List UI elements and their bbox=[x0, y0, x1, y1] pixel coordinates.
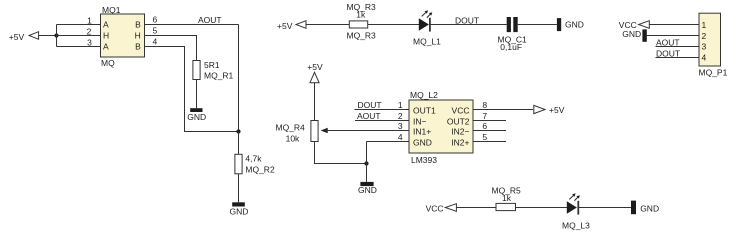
net label DOUT (P1) bbox=[656, 48, 680, 58]
wire R4 bottom to junction bbox=[315, 142, 367, 164]
svg-text:MQ_L2: MQ_L2 bbox=[410, 90, 438, 100]
svg-text:2: 2 bbox=[702, 31, 707, 41]
svg-text:VCC: VCC bbox=[426, 203, 444, 213]
value label MQ bbox=[101, 58, 115, 68]
ground under LM393 bbox=[358, 182, 377, 195]
LED MQ_L3 bbox=[567, 193, 580, 214]
wire +5V to R4 bbox=[314, 83, 316, 121]
power flag VCC (P1) bbox=[619, 20, 650, 30]
potentiometer MQ_R4 bbox=[311, 121, 328, 142]
wire LM393 pin 8 to +5V bbox=[473, 109, 533, 111]
svg-text:MQ_R3: MQ_R3 bbox=[347, 31, 377, 41]
pin number 7 (LM393) bbox=[482, 111, 487, 121]
resistor MQ_R3 bbox=[349, 21, 367, 28]
resistor MQ_R2 bbox=[235, 154, 242, 174]
svg-text:AOUT: AOUT bbox=[198, 15, 222, 25]
wire +5V to R3 bbox=[306, 24, 349, 26]
svg-text:7: 7 bbox=[482, 111, 487, 121]
value label 0,1uF bbox=[500, 42, 522, 52]
svg-text:H: H bbox=[103, 31, 109, 41]
svg-text:B: B bbox=[135, 42, 141, 52]
wire MQ1 pin 6 to AOUT vertical bbox=[145, 24, 239, 26]
svg-text:A: A bbox=[103, 42, 109, 52]
value label LM393 bbox=[411, 155, 437, 165]
svg-text:4: 4 bbox=[702, 53, 707, 63]
junction R4/GND bbox=[364, 161, 368, 165]
svg-text:+5V: +5V bbox=[549, 105, 565, 115]
svg-text:3: 3 bbox=[398, 121, 403, 131]
net label AOUT bbox=[198, 15, 222, 25]
gas sensor MQ1 body bbox=[101, 14, 145, 57]
svg-text:5: 5 bbox=[482, 132, 487, 142]
net label DOUT bbox=[455, 15, 479, 25]
svg-text:DOUT: DOUT bbox=[455, 15, 479, 25]
wire L3 to GND tap bbox=[578, 207, 631, 209]
svg-text:H: H bbox=[135, 31, 141, 41]
reference label MQ_R1 bbox=[204, 71, 234, 81]
svg-text:A: A bbox=[103, 20, 109, 30]
value label 10k bbox=[286, 133, 300, 143]
svg-text:GND: GND bbox=[640, 203, 659, 213]
power flag +5V left of MQ1 bbox=[9, 32, 39, 42]
wire R3 to LED L1 bbox=[368, 24, 419, 26]
comparator MQ_L2 body bbox=[409, 100, 473, 153]
reference label MQ_R2 bbox=[245, 164, 275, 174]
pin number 1 (LM393) bbox=[398, 100, 403, 110]
capacitor MQ_C1 bbox=[507, 17, 518, 32]
wire LM393 pin 6 stub bbox=[473, 130, 506, 132]
net label AOUT (LM393) bbox=[357, 111, 381, 121]
pin number 8 (LM393) bbox=[482, 100, 487, 110]
svg-text:+5V: +5V bbox=[277, 21, 293, 31]
wire vertical branch pins 1-3 bbox=[56, 25, 58, 47]
svg-text:AOUT: AOUT bbox=[357, 111, 381, 121]
wire L1 to C1 bbox=[430, 24, 507, 26]
pin number 2 (LM393) bbox=[398, 111, 403, 121]
svg-text:IN1+: IN1+ bbox=[413, 126, 431, 136]
name label MQ_R5 bbox=[492, 185, 522, 195]
power flag VCC (R5) bbox=[426, 203, 457, 213]
reference label MQ_L2 bbox=[410, 90, 438, 100]
name label MQ_R3 (top) bbox=[347, 2, 377, 12]
ground tap GND (L3) bbox=[631, 201, 659, 215]
wire C1 to GND tap bbox=[518, 24, 557, 26]
pin number 3 (MQ1) bbox=[87, 38, 92, 48]
value label 1k (R5) bbox=[502, 193, 512, 203]
svg-text:GND: GND bbox=[622, 29, 641, 39]
svg-text:IN2−: IN2− bbox=[451, 126, 469, 136]
svg-text:AOUT: AOUT bbox=[656, 37, 680, 47]
net label DOUT (LM393) bbox=[358, 100, 382, 110]
value label 5R1 bbox=[204, 60, 220, 70]
svg-text:OUT1: OUT1 bbox=[413, 105, 436, 115]
svg-text:MQ1: MQ1 bbox=[102, 5, 121, 15]
svg-text:2: 2 bbox=[398, 111, 403, 121]
wire to MQ1 pin 3 bbox=[57, 46, 101, 48]
reference label MQ_R3 (bottom) bbox=[347, 31, 377, 41]
svg-text:1: 1 bbox=[87, 16, 92, 26]
svg-text:MQ_R1: MQ_R1 bbox=[204, 71, 234, 81]
svg-text:4,7k: 4,7k bbox=[245, 154, 262, 164]
pin number 4 (LM393) bbox=[398, 132, 403, 142]
svg-text:4: 4 bbox=[398, 132, 403, 142]
svg-text:4: 4 bbox=[153, 37, 158, 47]
svg-text:1k: 1k bbox=[356, 10, 366, 20]
power flag +5V (R4 rail) bbox=[307, 62, 323, 83]
power flag +5V (R3 rail) bbox=[277, 21, 306, 31]
svg-text:0,1uF: 0,1uF bbox=[500, 42, 522, 52]
svg-text:10k: 10k bbox=[286, 133, 300, 143]
svg-text:IN2+: IN2+ bbox=[451, 137, 469, 147]
ground tap GND (P1) bbox=[622, 29, 647, 42]
pin number 1 (MQ1) bbox=[87, 16, 92, 26]
pin number 2 (MQ1) bbox=[87, 27, 92, 37]
svg-text:GND: GND bbox=[230, 207, 249, 217]
svg-text:3: 3 bbox=[702, 42, 707, 52]
connector MQ_P1 body bbox=[699, 13, 721, 66]
value label 4,7k bbox=[245, 154, 262, 164]
wire to MQ1 pin 1 bbox=[57, 24, 101, 26]
wire VCC to R5 bbox=[456, 207, 496, 209]
pin number 5 (MQ1) bbox=[153, 26, 158, 36]
wire AOUT to LM393 pin 2 bbox=[355, 120, 409, 122]
svg-text:5R1: 5R1 bbox=[204, 60, 220, 70]
svg-text:MQ_L3: MQ_L3 bbox=[562, 221, 590, 231]
pin number 6 (MQ1) bbox=[153, 15, 158, 25]
junction AOUT / R2 bbox=[236, 129, 240, 133]
wire LM393 pin 4 down to ground bbox=[366, 142, 368, 182]
pin number 5 (LM393) bbox=[482, 132, 487, 142]
svg-text:6: 6 bbox=[153, 15, 158, 25]
svg-text:MQ: MQ bbox=[101, 58, 115, 68]
wire R1 to ground bbox=[196, 80, 198, 109]
wire R2 to ground bbox=[238, 174, 240, 203]
value label 1k bbox=[356, 10, 366, 20]
wire DOUT to LM393 pin 1 bbox=[355, 109, 410, 111]
wire junction to R2 bbox=[238, 132, 240, 155]
svg-text:+5V: +5V bbox=[307, 62, 323, 72]
svg-text:GND: GND bbox=[565, 20, 584, 30]
svg-text:5: 5 bbox=[153, 26, 158, 36]
svg-text:+5V: +5V bbox=[9, 32, 25, 42]
wire LM393 pin 5 stub bbox=[473, 141, 506, 143]
wire LM393 pin 4 stub bbox=[367, 141, 410, 143]
ground under MQ_R1 bbox=[187, 108, 206, 122]
svg-text:MQ_L1: MQ_L1 bbox=[413, 36, 441, 46]
wire R4 wiper to LM393 pin 3 bbox=[325, 130, 409, 132]
wire MQ1 pin 4 down and right to junction bbox=[145, 47, 239, 132]
reference label MQ_L3 bbox=[562, 221, 590, 231]
svg-text:DOUT: DOUT bbox=[656, 48, 680, 58]
wire R5 to LED L3 bbox=[516, 207, 568, 209]
svg-text:VCC: VCC bbox=[452, 105, 470, 115]
wire MQ1 pin 5 to R1 bbox=[145, 36, 197, 61]
reference label MQ1 bbox=[102, 5, 121, 15]
svg-text:MQ_P1: MQ_P1 bbox=[699, 68, 728, 78]
svg-text:B: B bbox=[135, 20, 141, 30]
junction at +5V branch bbox=[54, 33, 58, 37]
svg-text:1: 1 bbox=[702, 20, 707, 30]
svg-text:GND: GND bbox=[358, 185, 377, 195]
svg-text:OUT2: OUT2 bbox=[447, 116, 470, 126]
LED MQ_L1 bbox=[419, 10, 433, 31]
svg-text:IN−: IN− bbox=[413, 116, 427, 126]
ground tap GND (top) bbox=[557, 18, 584, 31]
net label AOUT (P1) bbox=[656, 37, 680, 47]
reference label MQ_P1 bbox=[699, 68, 728, 78]
wire VCC to P1 pin 1 bbox=[649, 24, 699, 26]
reference label MQ_L1 bbox=[413, 36, 441, 46]
reference label MQ_R4 bbox=[276, 123, 306, 133]
svg-text:2: 2 bbox=[87, 27, 92, 37]
pin number 3 (LM393) bbox=[398, 121, 403, 131]
wire GND to P1 pin 2 bbox=[647, 35, 699, 37]
svg-text:3: 3 bbox=[87, 38, 92, 48]
svg-text:DOUT: DOUT bbox=[358, 100, 382, 110]
svg-text:6: 6 bbox=[482, 121, 487, 131]
wire AOUT vertical down bbox=[238, 25, 240, 132]
svg-text:MQ_R2: MQ_R2 bbox=[245, 164, 275, 174]
power flag +5V (LM393 VCC) bbox=[534, 105, 565, 115]
svg-text:LM393: LM393 bbox=[411, 155, 437, 165]
svg-text:MQ_R4: MQ_R4 bbox=[276, 123, 306, 133]
pin number 6 (LM393) bbox=[482, 121, 487, 131]
wire +5V flag to junction bbox=[39, 35, 57, 37]
resistor MQ_R1 bbox=[193, 61, 200, 80]
svg-text:1k: 1k bbox=[502, 193, 512, 203]
wire DOUT to P1 pin 4 bbox=[656, 57, 700, 59]
wire LM393 pin 7 stub bbox=[473, 120, 506, 122]
svg-text:1: 1 bbox=[398, 100, 403, 110]
wire to MQ1 pin 2 bbox=[57, 35, 101, 37]
ground under MQ_R2 bbox=[230, 202, 249, 216]
resistor MQ_R5 bbox=[496, 203, 516, 210]
pin number 4 (MQ1) bbox=[153, 37, 158, 47]
wire AOUT to P1 pin 3 bbox=[656, 46, 700, 48]
svg-text:GND: GND bbox=[187, 112, 206, 122]
svg-text:GND: GND bbox=[413, 137, 432, 147]
svg-text:8: 8 bbox=[482, 100, 487, 110]
reference label MQ_C1 bbox=[498, 34, 528, 44]
